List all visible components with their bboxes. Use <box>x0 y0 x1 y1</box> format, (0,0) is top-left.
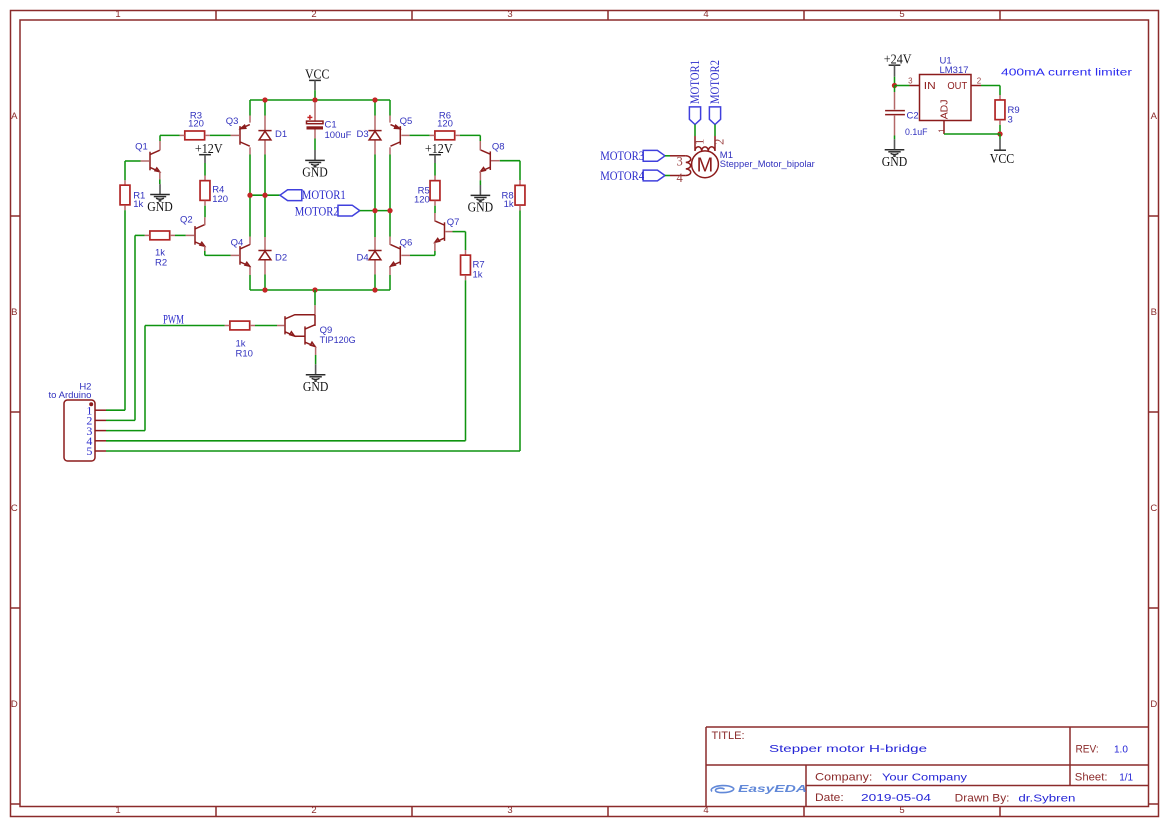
svg-text:0.1uF: 0.1uF <box>905 127 928 138</box>
svg-text:MOTOR1: MOTOR1 <box>302 188 346 202</box>
svg-text:C2: C2 <box>907 111 919 122</box>
svg-text:VCC: VCC <box>305 67 330 82</box>
svg-text:Q2: Q2 <box>180 215 193 226</box>
svg-text:Drawn By:: Drawn By: <box>955 793 1010 805</box>
svg-text:1: 1 <box>115 9 120 20</box>
svg-text:C1: C1 <box>325 119 337 130</box>
svg-text:4: 4 <box>703 9 708 20</box>
svg-text:D4: D4 <box>357 253 369 264</box>
svg-text:IN: IN <box>924 81 936 92</box>
svg-text:MOTOR4: MOTOR4 <box>600 169 645 183</box>
svg-text:1: 1 <box>692 139 706 145</box>
svg-text:TIP120G: TIP120G <box>320 335 356 346</box>
svg-text:1: 1 <box>937 128 946 133</box>
svg-text:B: B <box>1151 307 1157 318</box>
svg-text:MOTOR3: MOTOR3 <box>600 149 644 163</box>
svg-text:D2: D2 <box>275 253 287 264</box>
svg-text:Q6: Q6 <box>400 238 413 249</box>
svg-text:2: 2 <box>311 805 316 816</box>
svg-text:Q4: Q4 <box>231 238 244 249</box>
svg-text:C: C <box>11 503 18 514</box>
svg-text:Q3: Q3 <box>226 116 239 127</box>
svg-text:M: M <box>697 154 714 176</box>
svg-text:VCC: VCC <box>990 151 1015 166</box>
svg-text:PWM: PWM <box>163 312 184 326</box>
svg-text:+24V: +24V <box>884 51 912 66</box>
svg-text:R2: R2 <box>155 258 167 269</box>
svg-text:D3: D3 <box>357 129 369 140</box>
svg-text:GND: GND <box>303 379 329 394</box>
svg-text:MOTOR1: MOTOR1 <box>688 60 702 104</box>
svg-text:GND: GND <box>302 165 328 180</box>
svg-text:A: A <box>1151 111 1158 122</box>
svg-text:Stepper motor H-bridge: Stepper motor H-bridge <box>769 744 928 755</box>
svg-text:+12V: +12V <box>195 141 223 156</box>
svg-text:Stepper_Motor_bipolar: Stepper_Motor_bipolar <box>720 159 815 170</box>
svg-text:Q5: Q5 <box>400 116 413 127</box>
svg-text:1k: 1k <box>133 199 143 210</box>
svg-text:400mA current limiter: 400mA current limiter <box>1001 68 1133 79</box>
svg-text:GND: GND <box>882 154 908 169</box>
svg-text:B: B <box>11 307 17 318</box>
svg-text:GND: GND <box>147 199 173 214</box>
svg-text:1: 1 <box>115 805 120 816</box>
svg-text:Sheet:: Sheet: <box>1075 772 1108 784</box>
svg-text:3: 3 <box>507 805 512 816</box>
svg-text:D: D <box>1150 699 1157 710</box>
svg-text:120: 120 <box>188 119 204 130</box>
svg-text:R10: R10 <box>236 349 253 360</box>
svg-text:EasyEDA: EasyEDA <box>738 784 807 795</box>
svg-text:120: 120 <box>414 194 430 205</box>
svg-text:120: 120 <box>437 119 453 130</box>
svg-text:Q1: Q1 <box>135 142 148 153</box>
svg-text:ADJ: ADJ <box>940 100 951 120</box>
svg-text:3: 3 <box>507 9 512 20</box>
svg-text:1.0: 1.0 <box>1114 744 1128 755</box>
svg-text:Company:: Company: <box>815 772 872 784</box>
svg-text:1k: 1k <box>473 270 483 281</box>
svg-text:OUT: OUT <box>947 81 967 92</box>
svg-text:3: 3 <box>677 155 683 169</box>
svg-text:4: 4 <box>677 171 684 185</box>
svg-text:dr.Sybren: dr.Sybren <box>1018 794 1075 805</box>
svg-text:+12V: +12V <box>425 141 453 156</box>
svg-text:3: 3 <box>1008 115 1013 126</box>
svg-text:2: 2 <box>977 77 982 86</box>
svg-text:100uF: 100uF <box>325 130 352 141</box>
svg-text:GND: GND <box>468 200 494 215</box>
svg-text:C: C <box>1150 503 1157 514</box>
svg-text:1/1: 1/1 <box>1119 773 1133 784</box>
svg-text:5: 5 <box>899 805 904 816</box>
svg-text:Q8: Q8 <box>492 141 505 152</box>
svg-text:LM317: LM317 <box>940 65 969 76</box>
svg-text:5: 5 <box>899 9 904 20</box>
svg-text:5: 5 <box>86 444 92 458</box>
svg-text:Date:: Date: <box>815 792 844 804</box>
svg-text:1k: 1k <box>504 199 514 210</box>
svg-text:D1: D1 <box>275 129 287 140</box>
svg-text:2019-05-04: 2019-05-04 <box>861 793 932 804</box>
svg-text:TITLE:: TITLE: <box>712 730 745 742</box>
svg-text:4: 4 <box>703 805 708 816</box>
svg-text:to Arduino: to Arduino <box>49 390 92 401</box>
svg-text:A: A <box>11 111 18 122</box>
svg-text:3: 3 <box>908 77 913 86</box>
svg-text:Q7: Q7 <box>447 217 460 228</box>
svg-text:MOTOR2: MOTOR2 <box>708 60 722 104</box>
svg-text:MOTOR2: MOTOR2 <box>295 204 339 218</box>
svg-text:Your Company: Your Company <box>882 773 967 784</box>
svg-text:REV:: REV: <box>1076 743 1099 755</box>
svg-text:120: 120 <box>212 194 228 205</box>
svg-text:2: 2 <box>311 9 316 20</box>
svg-text:2: 2 <box>712 139 726 145</box>
svg-text:D: D <box>11 699 18 710</box>
